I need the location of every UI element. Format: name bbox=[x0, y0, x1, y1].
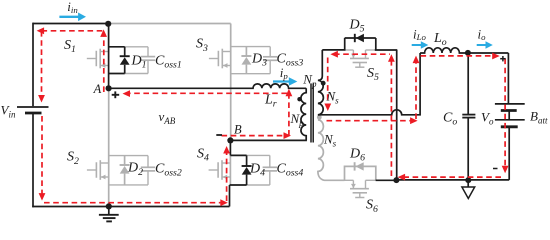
svg-text:B: B bbox=[234, 123, 242, 137]
svg-text:A: A bbox=[93, 82, 102, 96]
